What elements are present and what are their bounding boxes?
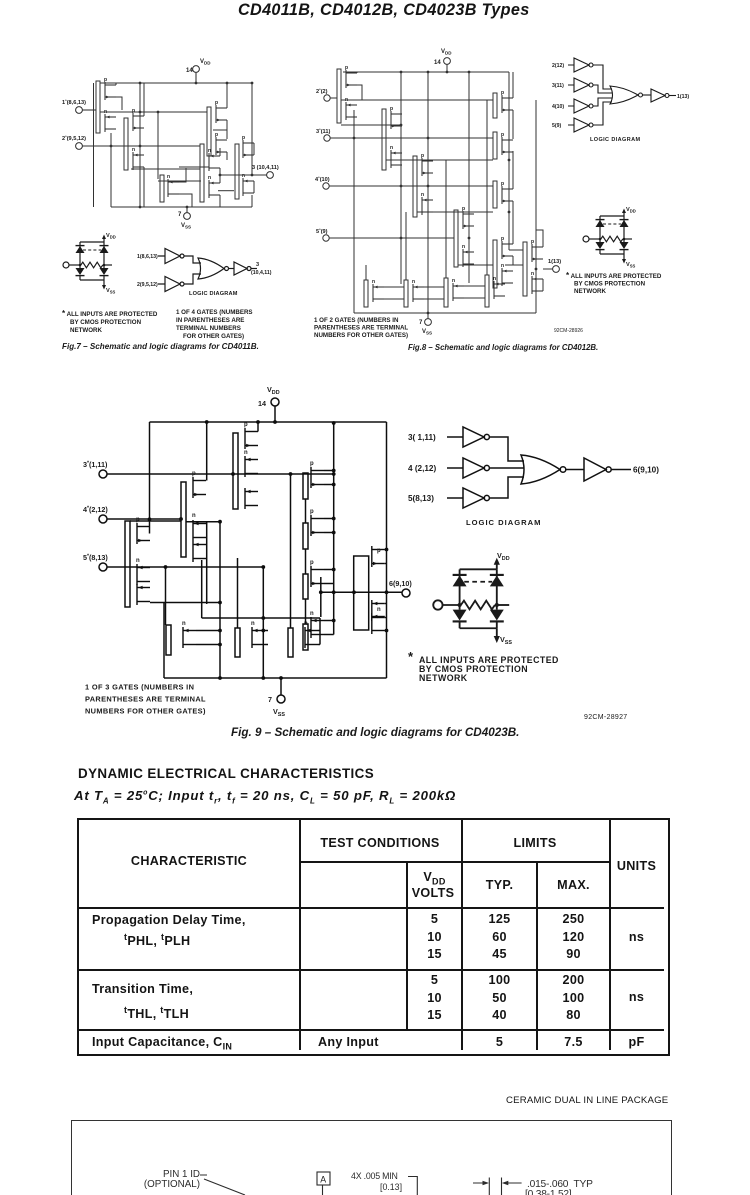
svg-text:3*(1,11): 3*(1,11): [83, 460, 108, 469]
datum A stem: [322, 1185, 324, 1195]
junction dots fig7: [110, 82, 254, 209]
input terminal 1 (8,6,13): [62, 98, 86, 113]
svg-text:n: n: [421, 192, 424, 198]
wire VDD drop to G5 p: [149, 422, 151, 534]
VSS terminal pin 7: [178, 212, 191, 230]
transistor G3 n-device 2: [245, 488, 258, 509]
fig9 asterisk note: [408, 649, 559, 683]
svg-text:2(9,5,12): 2(9,5,12): [137, 282, 158, 288]
transistor B2 gate bar and n-device: [235, 621, 265, 657]
svg-text:n: n: [412, 279, 415, 285]
transistor N7 series n-device 3: [444, 278, 464, 307]
output inverter: [584, 458, 611, 481]
wire VSS bottom rail: [111, 206, 252, 208]
svg-text:n: n: [136, 558, 140, 564]
svg-text:p: p: [501, 90, 504, 96]
wire input 1 to gate: [82, 109, 96, 111]
horizontal lines: [299, 861, 611, 863]
svg-text:* ALL INPUTS ARE PROTECTED: * ALL INPUTS ARE PROTECTED: [62, 309, 158, 318]
transistor G5 n-device 2: [137, 584, 150, 605]
wire VDD stem: [195, 72, 197, 83]
transistor P1 input-2 p-device: [337, 65, 357, 123]
subtitle: [74, 788, 456, 806]
transistor P4 input-5 p-device: [454, 206, 474, 267]
wire G5 n2 to x220: [150, 602, 220, 604]
svg-text:(10,4,11): (10,4,11): [251, 270, 272, 276]
wire right vertical: [251, 83, 253, 207]
transistor G4 p-device: [192, 471, 206, 498]
svg-text:p: p: [310, 461, 314, 467]
transistor G5 p-device: [136, 517, 150, 544]
input terminal 5 (9): [316, 227, 329, 241]
transistor OUT p-device: [372, 546, 385, 567]
wire bottom n chain: [384, 286, 485, 299]
svg-text:NETWORK: NETWORK: [574, 288, 606, 295]
transistor R3 parallel p-device: [303, 560, 324, 599]
wire input 4: [329, 185, 493, 187]
transistor P1 input-1 p-device: [96, 77, 116, 133]
wire inv3 to nor: [593, 85, 612, 93]
row B: [92, 982, 193, 996]
transistor G5 gate bar (input 5): [125, 521, 130, 607]
wire buffer node: [505, 264, 523, 266]
svg-text:VSS: VSS: [273, 707, 285, 718]
transistor P4 second-stage p-device lower: [215, 132, 227, 155]
wire to output: [611, 469, 631, 471]
inverter input 4: [568, 99, 593, 113]
transistor N5 series n-device 1: [364, 279, 384, 307]
svg-text:3 (10,4,11): 3 (10,4,11): [252, 165, 279, 171]
svg-text:4*(2,12): 4*(2,12): [83, 505, 108, 514]
wire VDD top rail: [150, 421, 387, 423]
svg-text:p: p: [310, 509, 314, 515]
svg-text:VSS: VSS: [106, 288, 116, 294]
VSS terminal pin 7: [268, 695, 285, 718]
transistor P3 second-stage p-device upper: [207, 100, 227, 156]
svg-text:p: p: [390, 106, 393, 112]
wire VDD stem: [274, 406, 276, 422]
svg-text:p: p: [501, 132, 504, 138]
inverter input 4: [447, 458, 489, 478]
wire nor to inverter: [229, 268, 235, 270]
transistor R2 parallel p-device: [303, 509, 324, 549]
svg-text:VSS: VSS: [626, 262, 636, 268]
transistor N9 series n-device 4: [485, 275, 505, 307]
wire p-column drains: [512, 72, 514, 265]
wire R2 leads: [324, 519, 334, 533]
wire node row y265: [458, 264, 493, 266]
svg-text:n: n: [452, 278, 455, 284]
transistor G4 n-device 2: [193, 541, 206, 562]
wire G4 node link: [186, 521, 220, 523]
transistor B3 gate bar and n-device: [288, 621, 318, 657]
transistor N2 input-3 n-device: [390, 145, 402, 168]
input terminal 2 (2): [316, 87, 330, 101]
transistor P9 output p-device: [523, 239, 543, 296]
transistor N1 input-1 n-device: [104, 109, 116, 132]
svg-text:3( 1,11): 3( 1,11): [408, 433, 436, 442]
svg-text:VDD: VDD: [267, 385, 280, 396]
wire T4-T5 chain: [179, 166, 209, 168]
wire OUT p leads: [385, 550, 387, 564]
svg-text:7: 7: [419, 320, 423, 326]
fig9 gates note: [85, 683, 206, 716]
svg-text:n: n: [251, 621, 255, 627]
wire VDD top rail: [100, 82, 252, 84]
svg-text:1*(8,6,13): 1*(8,6,13): [62, 98, 86, 106]
junction dots fig9: [148, 420, 389, 680]
transistor P5 parallel p-device 1: [493, 90, 513, 118]
wire input 5: [329, 237, 454, 239]
svg-text:TERMINAL NUMBERS: TERMINAL NUMBERS: [176, 325, 241, 332]
inverter input 3: [568, 78, 593, 92]
svg-text:n: n: [462, 244, 465, 250]
input terminal 4 (10): [315, 175, 330, 189]
CMOS protection network (diodes, resistor): [583, 209, 632, 264]
wire S10 gate riser: [405, 212, 407, 280]
wire input 3: [330, 137, 493, 139]
wire B2 leads: [265, 631, 268, 645]
wire inv A to nor: [184, 256, 201, 263]
table: [77, 818, 670, 1056]
inverter input 5: [447, 488, 489, 508]
transistor G3 gate bar (input 3): [233, 433, 238, 509]
transistor N1 input-2 n-device: [345, 97, 357, 120]
svg-text:n: n: [493, 276, 496, 282]
svg-text:VDD: VDD: [106, 233, 116, 239]
svg-text:7: 7: [268, 695, 272, 704]
input terminal 2 (9,5,12): [62, 134, 86, 149]
wire inv3 to nor: [489, 437, 524, 461]
transistor N2 input-2 n-device: [132, 147, 144, 170]
wire nor to inverter: [643, 94, 652, 96]
row A: [92, 913, 246, 927]
wire inv4 to nor: [489, 467, 524, 469]
wire VSS bottom rail: [354, 312, 536, 314]
transistor R1 parallel p-device: [303, 461, 324, 499]
wire p2 drain: [143, 83, 145, 116]
wire VSS bottom rail: [164, 677, 387, 679]
svg-text:p: p: [462, 206, 465, 212]
transistor OUT n-device: [372, 600, 385, 634]
svg-text:BY CMOS PROTECTION: BY CMOS PROTECTION: [574, 281, 646, 288]
wire input 4 line: [107, 518, 181, 520]
output terminal 1(13): [548, 259, 561, 272]
wire vertical x509: [508, 72, 510, 250]
transistor P8/N8 buffer pair: [493, 236, 513, 288]
wire n4 n5 chain: [219, 148, 221, 207]
transistor N5 second-stage n-device lower: [208, 175, 220, 198]
transistor N4 input-5 n-device: [462, 244, 474, 267]
svg-text:NETWORK: NETWORK: [419, 673, 468, 683]
wire node row y100: [341, 99, 493, 101]
svg-text:n: n: [244, 450, 248, 456]
wire R gate chain links: [305, 499, 307, 624]
svg-text:*: *: [408, 649, 414, 664]
svg-text:p: p: [132, 108, 135, 114]
NOR gate 4-input: [610, 86, 643, 104]
svg-text:n: n: [182, 621, 186, 627]
svg-text:VSS: VSS: [422, 329, 432, 336]
NOR gate: [198, 258, 229, 279]
wire P1 drain to rail: [357, 72, 362, 100]
svg-text:p: p: [215, 100, 218, 106]
svg-text:n: n: [372, 279, 375, 285]
transistor N10 output n-device: [531, 271, 543, 294]
inverter A input 1: [158, 249, 184, 264]
wire nor to inverter: [566, 469, 584, 471]
svg-text:n: n: [208, 175, 211, 181]
transistor P7 parallel p-device 3: [493, 181, 513, 208]
svg-text:LOGIC DIAGRAM: LOGIC DIAGRAM: [189, 291, 238, 297]
svg-text:p: p: [192, 471, 196, 477]
transistor N6 series n-device 2: [404, 279, 424, 307]
svg-text:n: n: [208, 148, 211, 154]
transistor N6 output n-device: [242, 173, 254, 196]
fig8 gates note: [314, 317, 408, 339]
wire VSS stem: [427, 313, 429, 319]
svg-text:p: p: [104, 77, 107, 83]
svg-text:6(9,10): 6(9,10): [633, 466, 659, 475]
svg-text:p: p: [242, 135, 245, 141]
wire output node: [220, 174, 267, 176]
wire vertical x158: [157, 112, 159, 179]
wire far-left vertical: [93, 83, 95, 207]
wire bottom node y618: [202, 617, 320, 619]
svg-text:5(9): 5(9): [552, 123, 561, 129]
wire to output: [669, 95, 676, 97]
svg-text:LOGIC DIAGRAM: LOGIC DIAGRAM: [590, 137, 640, 143]
transistor G3 p-device: [244, 422, 258, 449]
svg-text:NETWORK: NETWORK: [70, 327, 102, 334]
wire VDD drop to G3 p: [257, 422, 259, 432]
input terminal 3 (1,11): [83, 460, 108, 478]
wire B1 leads: [196, 631, 220, 645]
svg-text:6(9,10): 6(9,10): [389, 579, 412, 588]
svg-text:A: A: [320, 1175, 326, 1185]
output terminal 3 (10,4,11): [252, 165, 279, 178]
svg-text:p: p: [345, 65, 348, 71]
wire S11 gate riser: [445, 160, 447, 278]
wire input4-G5 link: [130, 520, 181, 522]
wire vertical x401: [400, 72, 402, 284]
svg-text:92CM-28926: 92CM-28926: [554, 328, 583, 334]
svg-text:4*(10): 4*(10): [315, 175, 330, 183]
transistor G5 n-device 1: [136, 558, 150, 585]
wire x220 vertical: [219, 522, 221, 678]
CMOS protection network (diodes, resistor): [433, 558, 509, 643]
wire to output: [251, 268, 257, 270]
wire B3 gate riser: [290, 474, 292, 628]
svg-text:VDD: VDD: [200, 59, 211, 66]
svg-text:n: n: [132, 147, 135, 153]
inverter input 3: [447, 427, 489, 447]
svg-text:7: 7: [178, 212, 182, 218]
wire left vertical: [110, 133, 112, 207]
svg-text:LOGIC DIAGRAM: LOGIC DIAGRAM: [466, 518, 541, 527]
header texts: [79, 854, 299, 868]
bracket: [408, 1177, 417, 1195]
svg-text:n: n: [192, 513, 196, 519]
transistor N3 input-4 n-device: [421, 192, 433, 215]
svg-text:p: p: [136, 517, 140, 523]
svg-text:3*(11): 3*(11): [316, 127, 330, 135]
NOR gate 3-input: [521, 455, 566, 484]
row C: [92, 1035, 232, 1052]
svg-text:92CM-28927: 92CM-28927: [584, 714, 627, 721]
input terminal 3 (11): [316, 127, 330, 141]
wire VSS stem: [280, 678, 282, 695]
svg-text:p: p: [501, 181, 504, 187]
page title: [238, 1, 548, 20]
wire inv4 to nor: [593, 98, 612, 106]
wire VDD drop to G4 p: [206, 422, 208, 481]
wire left vertical: [353, 110, 355, 313]
svg-text:VDD: VDD: [626, 207, 636, 213]
svg-text:n: n: [377, 607, 381, 613]
wire n3 chain: [179, 168, 192, 207]
transistor P2 input-3 p-device: [382, 106, 402, 170]
pin1 leader line: [200, 1175, 245, 1195]
wire B1 gate riser: [165, 567, 167, 625]
transistor OUT gate bar: [354, 556, 369, 630]
wire right vertical x536: [535, 100, 537, 313]
transistor G4 n-device 1: [192, 513, 206, 541]
wire output p drain: [536, 230, 543, 291]
dim arrow right: [501, 1178, 503, 1195]
wire OUT n leads: [385, 604, 387, 631]
wire n2 to bottom: [143, 167, 145, 207]
svg-text:1(8,6,13): 1(8,6,13): [137, 254, 158, 260]
wire R-column collector: [333, 423, 335, 635]
svg-text:2*(2): 2*(2): [316, 87, 328, 95]
wire p3/p4 drains to rail: [226, 83, 228, 160]
wire vertical x469: [468, 72, 470, 283]
wire S9 gate riser: [365, 265, 367, 280]
fig7 footnote asterisk note: [62, 309, 158, 334]
svg-text:n: n: [531, 271, 534, 277]
svg-text:IN PARENTHESES ARE: IN PARENTHESES ARE: [176, 317, 244, 324]
wire node row y160: [386, 159, 493, 161]
svg-text:p: p: [215, 132, 218, 138]
svg-text:1 OF 4 GATES (NUMBERS: 1 OF 4 GATES (NUMBERS: [176, 309, 253, 316]
svg-text:1 OF 2 GATES (NUMBERS IN: 1 OF 2 GATES (NUMBERS IN: [314, 317, 399, 324]
inverter input 5: [568, 118, 593, 132]
wire output inverter gate link: [509, 249, 523, 251]
svg-text:2(12): 2(12): [552, 63, 564, 69]
svg-text:Fig.7 – Schematic and logic di: Fig.7 – Schematic and logic diagrams for…: [62, 342, 259, 351]
package drawing frame: [71, 1120, 672, 1195]
svg-text:14: 14: [186, 68, 193, 74]
VDD terminal pin 14: [258, 385, 280, 408]
transistor B1 gate bar and n-device: [166, 621, 196, 655]
svg-text:p: p: [421, 153, 424, 159]
svg-text:4(10): 4(10): [552, 104, 564, 110]
svg-text:PARENTHESES ARE TERMINAL: PARENTHESES ARE TERMINAL: [314, 325, 408, 332]
wire B2 gate riser: [237, 558, 239, 628]
junction dots fig8: [353, 71, 538, 315]
svg-text:2*(9,5,12): 2*(9,5,12): [62, 134, 86, 142]
wire first-stage drop: [320, 577, 322, 617]
dim arrow left: [473, 1182, 483, 1184]
wire T5-T6 chain: [218, 190, 234, 192]
wire B3 leads: [318, 618, 320, 645]
svg-text:n: n: [390, 145, 393, 151]
wire right vertical: [386, 422, 388, 678]
svg-text:3: 3: [256, 262, 259, 268]
svg-text:p: p: [501, 236, 504, 242]
datum A box: [317, 1172, 330, 1185]
wire out p5: [253, 143, 255, 193]
wire G4 n chain down: [206, 523, 208, 605]
wire output node: [543, 268, 553, 270]
vertical lines: [299, 820, 301, 1050]
inverter B input 2: [158, 277, 184, 292]
svg-text:n: n: [242, 173, 245, 179]
wire VSS stem: [186, 207, 188, 213]
wire node row y125: [341, 124, 401, 126]
wire input 2: [330, 97, 337, 99]
svg-text:5*(9): 5*(9): [316, 227, 328, 235]
svg-text:p: p: [244, 422, 248, 428]
svg-text:NUMBERS FOR OTHER GATES): NUMBERS FOR OTHER GATES): [314, 332, 408, 339]
svg-text:4 (2,12): 4 (2,12): [408, 464, 436, 473]
output label 3 (10,4,11): [251, 262, 272, 276]
wire second stage node: [213, 129, 227, 131]
wire bottom rail left riser: [163, 603, 165, 679]
svg-text:1(13): 1(13): [548, 259, 561, 265]
svg-text:FOR OTHER GATES): FOR OTHER GATES): [183, 333, 244, 340]
transistor N3 series n-device: [160, 174, 179, 202]
wire p1 drain to rail: [116, 83, 122, 110]
output terminal 6 (9,10): [389, 579, 412, 597]
svg-text:p: p: [377, 548, 381, 554]
fig8 asterisk note: [566, 271, 662, 295]
svg-text:n: n: [167, 174, 170, 180]
svg-text:n: n: [501, 263, 504, 269]
transistor R4 n-device: [303, 611, 324, 650]
VDD terminal pin 14: [434, 49, 452, 66]
svg-text:1(13): 1(13): [677, 94, 689, 100]
svg-text:14: 14: [434, 60, 441, 66]
svg-text:Fig.8 – Schematic and logic di: Fig.8 – Schematic and logic diagrams for…: [408, 343, 598, 352]
transistor P5 output p-device: [235, 135, 254, 199]
wire T2 source to T5 gate: [131, 168, 200, 170]
wire output node: [321, 591, 402, 593]
wire input5 drop to B2: [262, 567, 264, 678]
wire VDD top rail: [343, 71, 509, 73]
wire inv5 to nor: [489, 477, 524, 498]
output inverter: [234, 262, 251, 275]
output inverter: [651, 89, 669, 102]
VDD terminal pin 14: [186, 59, 211, 74]
svg-text:VDD: VDD: [441, 49, 452, 56]
transistor P6 parallel p-device 2: [493, 132, 513, 159]
CMOS protection network (diodes D1-D4, resistor R): [63, 235, 112, 290]
wire vertical x428: [427, 72, 429, 313]
svg-text:3(11): 3(11): [552, 83, 564, 89]
transistor N4 second-stage n-device upper: [200, 144, 220, 202]
wire T4 link: [158, 180, 201, 182]
svg-text:VSS: VSS: [181, 223, 191, 230]
wire node row y212: [417, 211, 493, 213]
wire mid vertical: [139, 83, 141, 207]
VSS terminal pin 7: [419, 319, 432, 336]
wire VDD stem: [446, 64, 448, 72]
fig7 gates note: [176, 309, 253, 340]
wire S12 gate riser: [486, 100, 488, 275]
input terminal 4 (2,12): [83, 505, 108, 523]
